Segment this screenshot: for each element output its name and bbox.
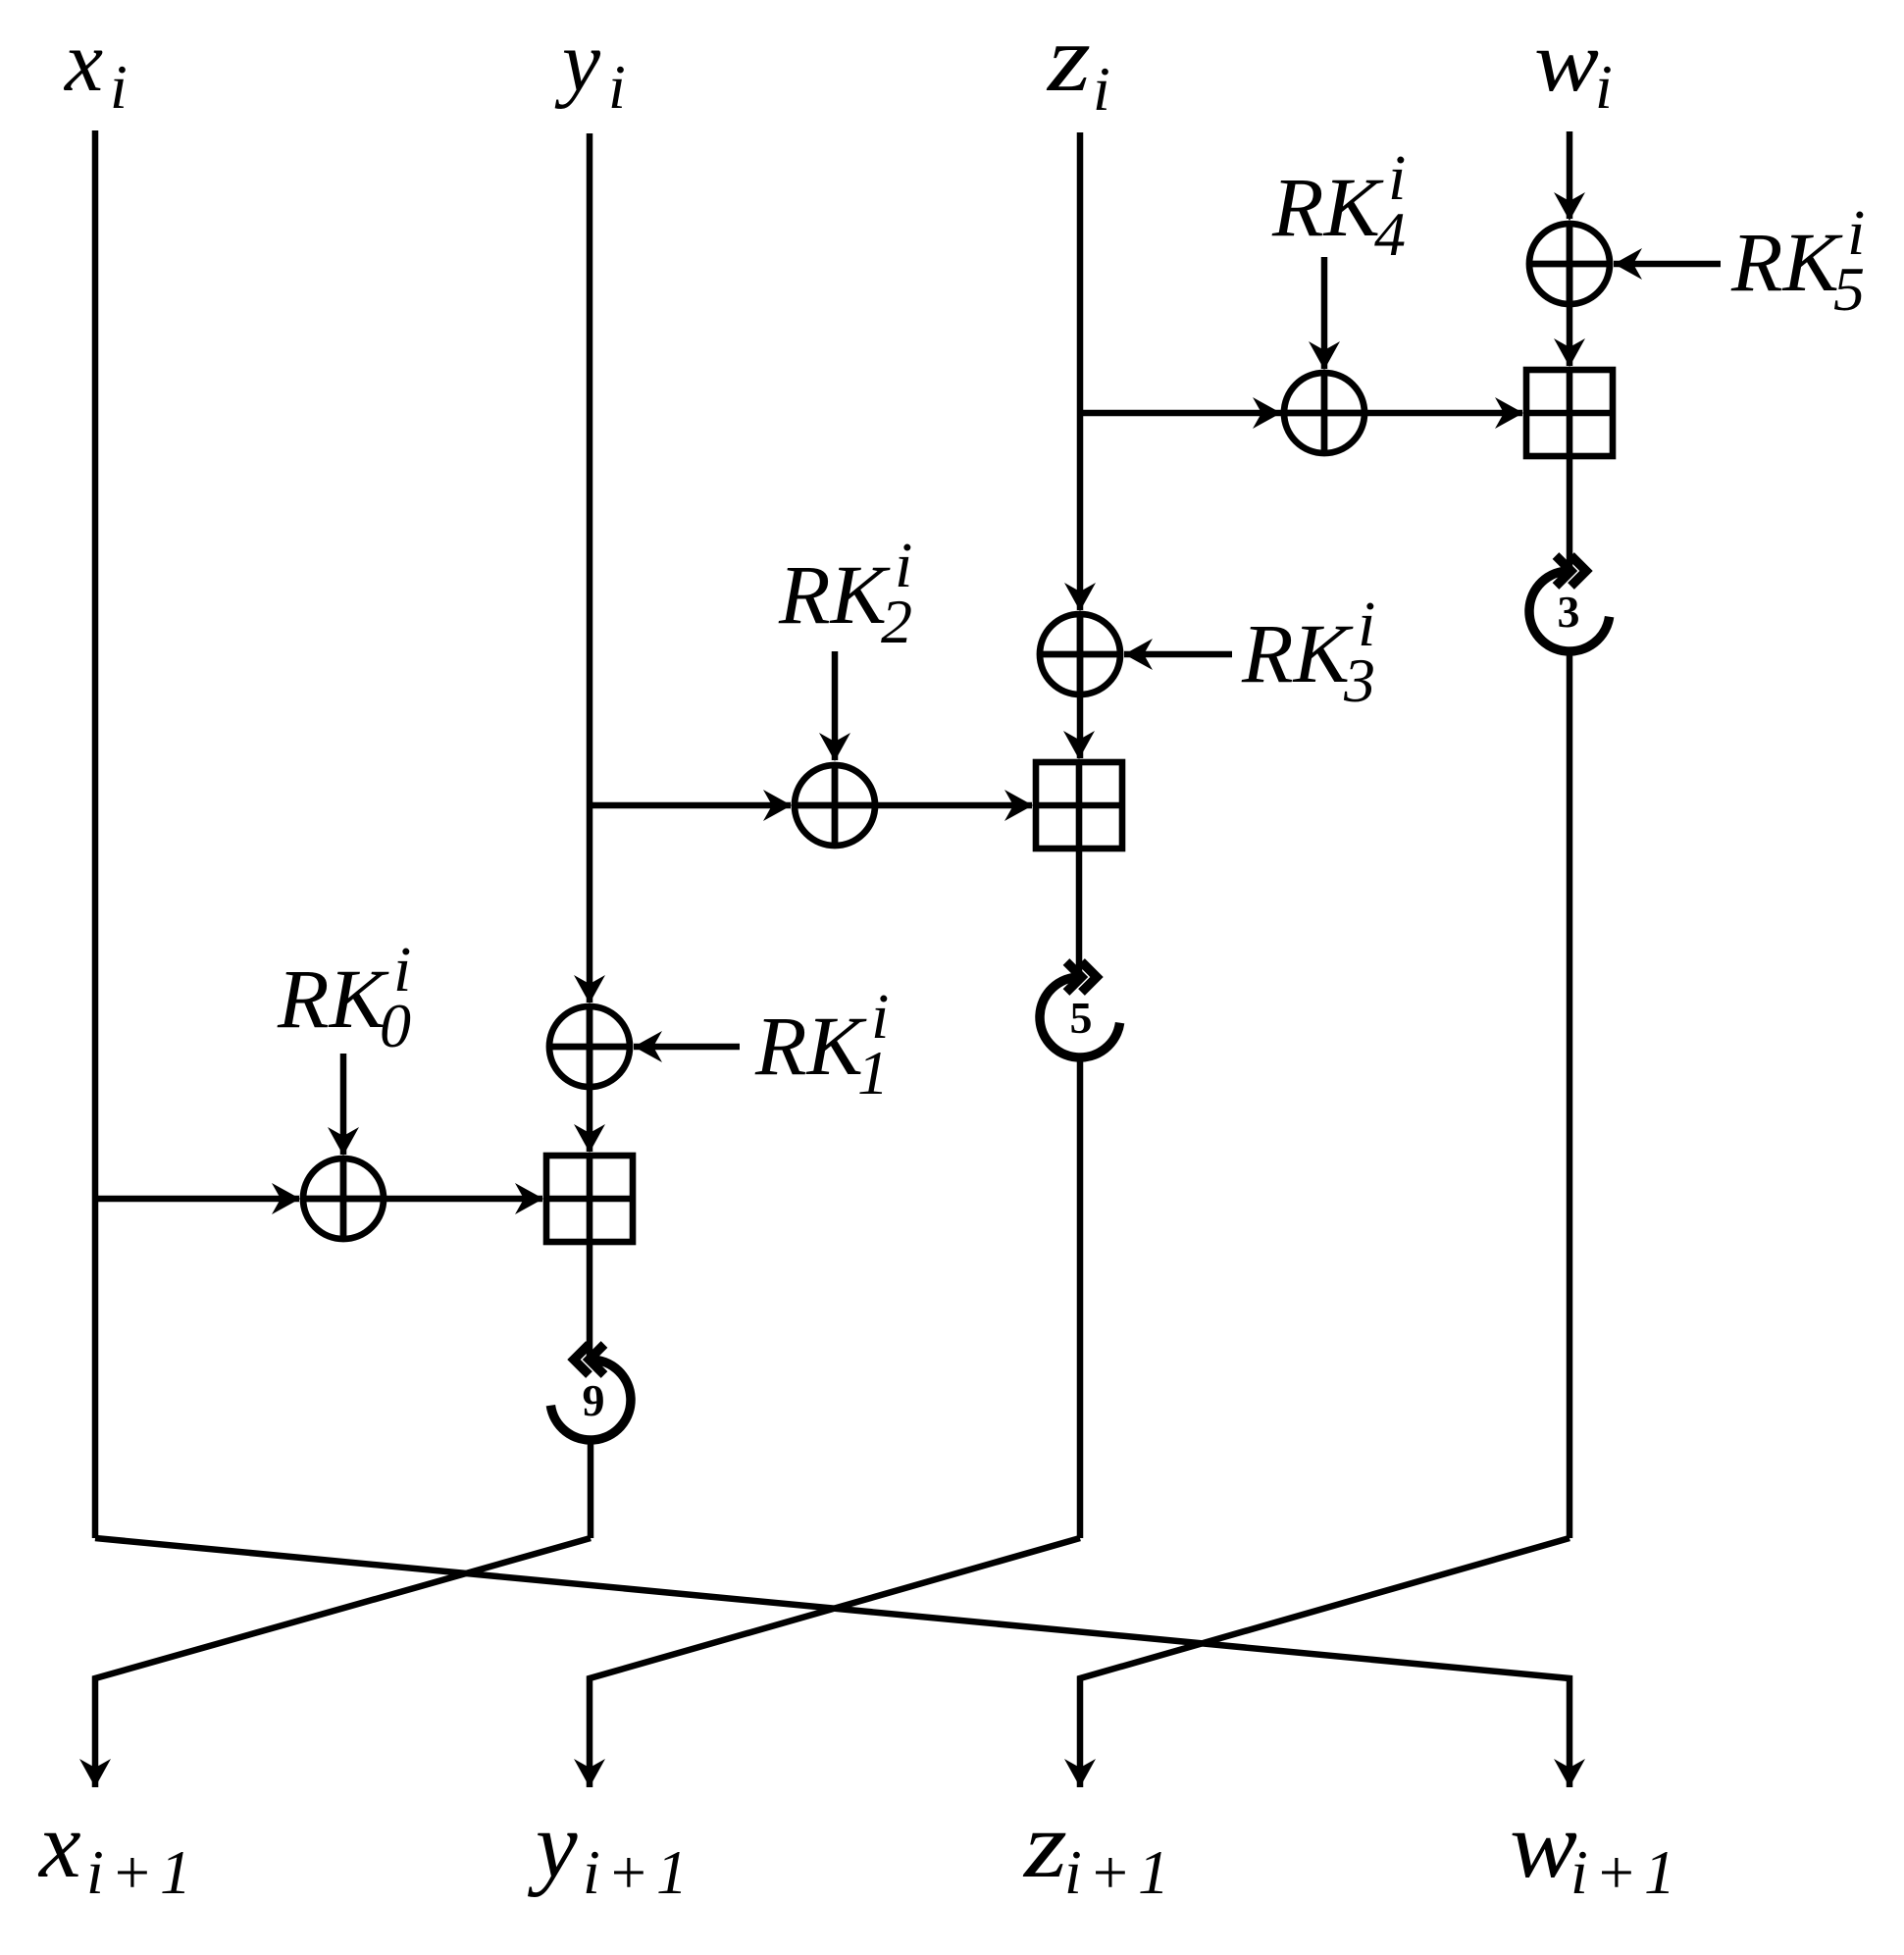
wire y to x+1 crossing <box>95 1538 591 1787</box>
arrow into add box z <box>1063 731 1095 759</box>
svg-text:z: z <box>1046 6 1091 112</box>
svg-text:i+1: i+1 <box>583 1837 695 1907</box>
xor RK0 <box>303 1158 384 1239</box>
wire y box to rol9 <box>587 1245 593 1357</box>
arrow output w+1 <box>1554 1759 1585 1787</box>
wire y xor1 to box <box>587 1047 593 1152</box>
wire z xor3 to box <box>1077 695 1084 758</box>
wire RK5 to xor <box>1614 261 1721 268</box>
svg-text:i: i <box>1595 52 1620 122</box>
svg-text:5: 5 <box>1070 993 1093 1043</box>
wire RK0 down <box>340 1054 347 1155</box>
xor RK4 <box>1284 373 1364 453</box>
svg-text:i+1: i+1 <box>86 1837 198 1907</box>
wire z to y+1 crossing <box>590 1538 1080 1787</box>
wire RK1 to xor <box>634 1044 740 1051</box>
arrow into xor RK2 <box>763 790 792 821</box>
svg-text:x: x <box>37 1792 81 1897</box>
add box y <box>546 1156 633 1242</box>
xor RK3 <box>1040 614 1120 695</box>
add box w <box>1526 370 1613 456</box>
svg-text:3: 3 <box>1558 587 1580 637</box>
arrow into add box y <box>515 1183 543 1214</box>
round key RK3 <box>1241 589 1375 715</box>
svg-text:RK: RK <box>1271 160 1385 254</box>
wire y column upper <box>587 133 593 1003</box>
svg-text:3: 3 <box>1343 645 1375 715</box>
svg-text:w: w <box>1534 15 1599 110</box>
rotate right 5 <box>1040 962 1120 1057</box>
arrow z into xor RK3 <box>1064 583 1096 611</box>
wire z ror5 to bend <box>1077 1059 1084 1538</box>
add box z <box>1036 762 1122 849</box>
arrow into add box y <box>574 1124 605 1153</box>
input label x_i <box>63 15 134 122</box>
wire xor RK0 to add box y <box>384 1196 542 1203</box>
arrow into add box w <box>1554 338 1585 367</box>
svg-text:RK: RK <box>277 952 390 1046</box>
svg-text:1: 1 <box>857 1038 889 1107</box>
output label z_i+1 <box>1022 1792 1176 1907</box>
wire xor RK4 to add box w <box>1364 410 1522 417</box>
svg-text:RK: RK <box>754 999 868 1093</box>
round key RK2 <box>778 530 912 656</box>
input label y_i <box>554 15 633 122</box>
arrow output y+1 <box>574 1759 605 1787</box>
arrow RK3 into xor <box>1124 639 1153 670</box>
arrow output z+1 <box>1064 1759 1096 1787</box>
arrow RK4 into xor <box>1309 341 1340 370</box>
svg-text:5: 5 <box>1833 254 1865 324</box>
wire x column <box>92 130 99 1538</box>
svg-text:RK: RK <box>1730 215 1844 309</box>
svg-text:w: w <box>1510 1792 1577 1897</box>
svg-text:i+1: i+1 <box>1570 1837 1682 1907</box>
arrow into xor RK4 <box>1253 397 1281 429</box>
svg-text:RK: RK <box>778 547 892 642</box>
wire w ror3 to bend <box>1567 653 1573 1538</box>
arrow into add box z <box>1004 790 1033 821</box>
svg-text:4: 4 <box>1374 199 1406 269</box>
wire x to xor RK0 row <box>95 1196 299 1203</box>
wire w to z+1 crossing <box>1080 1538 1570 1787</box>
arrow RK5 into xor <box>1614 248 1642 280</box>
arrow into add box w <box>1495 397 1523 429</box>
wire z column upper <box>1077 132 1084 610</box>
svg-text:0: 0 <box>380 991 411 1060</box>
wire xor RK2 to add box z <box>875 802 1032 809</box>
wire w xor5 to box <box>1567 263 1573 366</box>
round key RK4 <box>1271 142 1406 269</box>
wire RK4 down <box>1321 257 1328 369</box>
output label y_i+1 <box>527 1792 695 1907</box>
wire z to xor RK4 row <box>1080 410 1281 417</box>
wire x to w+1 crossing <box>95 1538 1570 1787</box>
svg-text:2: 2 <box>881 587 912 656</box>
svg-text:y: y <box>554 15 601 110</box>
arrow into xor RK0 <box>272 1183 300 1214</box>
arrow y into xor RK1 <box>574 975 605 1003</box>
input label w_i <box>1534 15 1620 122</box>
round key RK0 <box>277 934 411 1060</box>
svg-text:i+1: i+1 <box>1064 1837 1176 1907</box>
rotate right 3 <box>1529 556 1610 651</box>
xor RK1 <box>549 1006 630 1087</box>
wire y rol9 to bend <box>588 1442 594 1538</box>
xor RK2 <box>795 765 875 846</box>
arrow output x+1 <box>79 1759 111 1787</box>
wire w column upper <box>1567 131 1573 219</box>
round key RK5 <box>1730 197 1865 324</box>
wire z box to ror5 <box>1076 849 1083 974</box>
svg-text:i: i <box>608 52 633 122</box>
arrow RK0 into xor <box>328 1127 359 1156</box>
svg-text:9: 9 <box>583 1375 605 1425</box>
arrow w into xor RK5 <box>1554 192 1585 221</box>
input label z_i <box>1046 6 1117 124</box>
round key RK1 <box>754 981 889 1107</box>
svg-text:RK: RK <box>1241 606 1355 700</box>
wire RK3 to xor <box>1124 651 1232 658</box>
output label w_i+1 <box>1510 1792 1682 1907</box>
svg-text:x: x <box>63 15 103 110</box>
wire RK2 down <box>832 651 839 760</box>
arrow RK1 into xor <box>634 1031 662 1062</box>
rotate left 9 <box>550 1345 631 1440</box>
svg-text:i: i <box>110 52 134 122</box>
output label x_i+1 <box>37 1792 198 1907</box>
wire w box to ror3 <box>1567 456 1573 568</box>
xor RK5 <box>1529 224 1610 304</box>
svg-text:i: i <box>1093 54 1117 124</box>
wire y to xor RK2 row <box>590 802 791 809</box>
arrow RK2 into xor <box>819 733 850 761</box>
svg-text:z: z <box>1022 1792 1067 1897</box>
